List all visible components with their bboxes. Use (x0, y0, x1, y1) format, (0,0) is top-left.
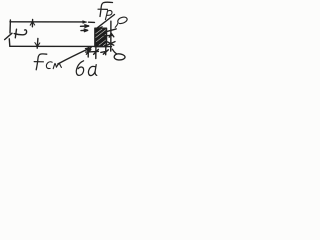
bottom extension line 1 (87, 47, 89, 57)
label m subscript (53, 63, 61, 68)
plate bottom edge under square (95, 46, 112, 48)
label a (bottom) (88, 65, 96, 76)
right vertical dimension line (110, 21, 112, 51)
arrow marks y33 (109, 33, 114, 37)
label delta (bottom) (76, 61, 83, 76)
bearing arrow 1 (81, 25, 89, 27)
t dimension bottom arrow (36, 38, 39, 48)
bottom extension line 2 (95, 47, 97, 59)
label F (of Fcm) (36, 54, 47, 70)
cross at y43.5 (107, 42, 115, 46)
label t (rotated) (14, 30, 26, 35)
bearing arrow 2 (81, 29, 88, 31)
label c subscript (46, 62, 52, 69)
plate left break edge (9, 20, 11, 33)
Fcm leader arrow (58, 48, 91, 64)
plate bottom edge (10, 45, 95, 47)
label p subscript (105, 10, 112, 19)
label delta rotated (right) (112, 49, 116, 54)
Fp leader arrow (97, 15, 115, 29)
plate top edge (10, 21, 84, 23)
label a (rotated, right top) (118, 17, 127, 23)
top edge arrowhead (83, 21, 87, 24)
slash ticks bottom (86, 50, 90, 55)
bottom dim line (86, 50, 99, 53)
label F (of Fp) (100, 2, 113, 16)
top edge segment near square (89, 21, 95, 23)
t dimension top arrow (31, 20, 33, 27)
lower right extension marks (105, 47, 107, 55)
rivet hatch (96, 29, 106, 46)
rivet square (95, 28, 107, 46)
tick at y35.5 (104, 34, 112, 37)
tick at y30 (106, 29, 117, 32)
